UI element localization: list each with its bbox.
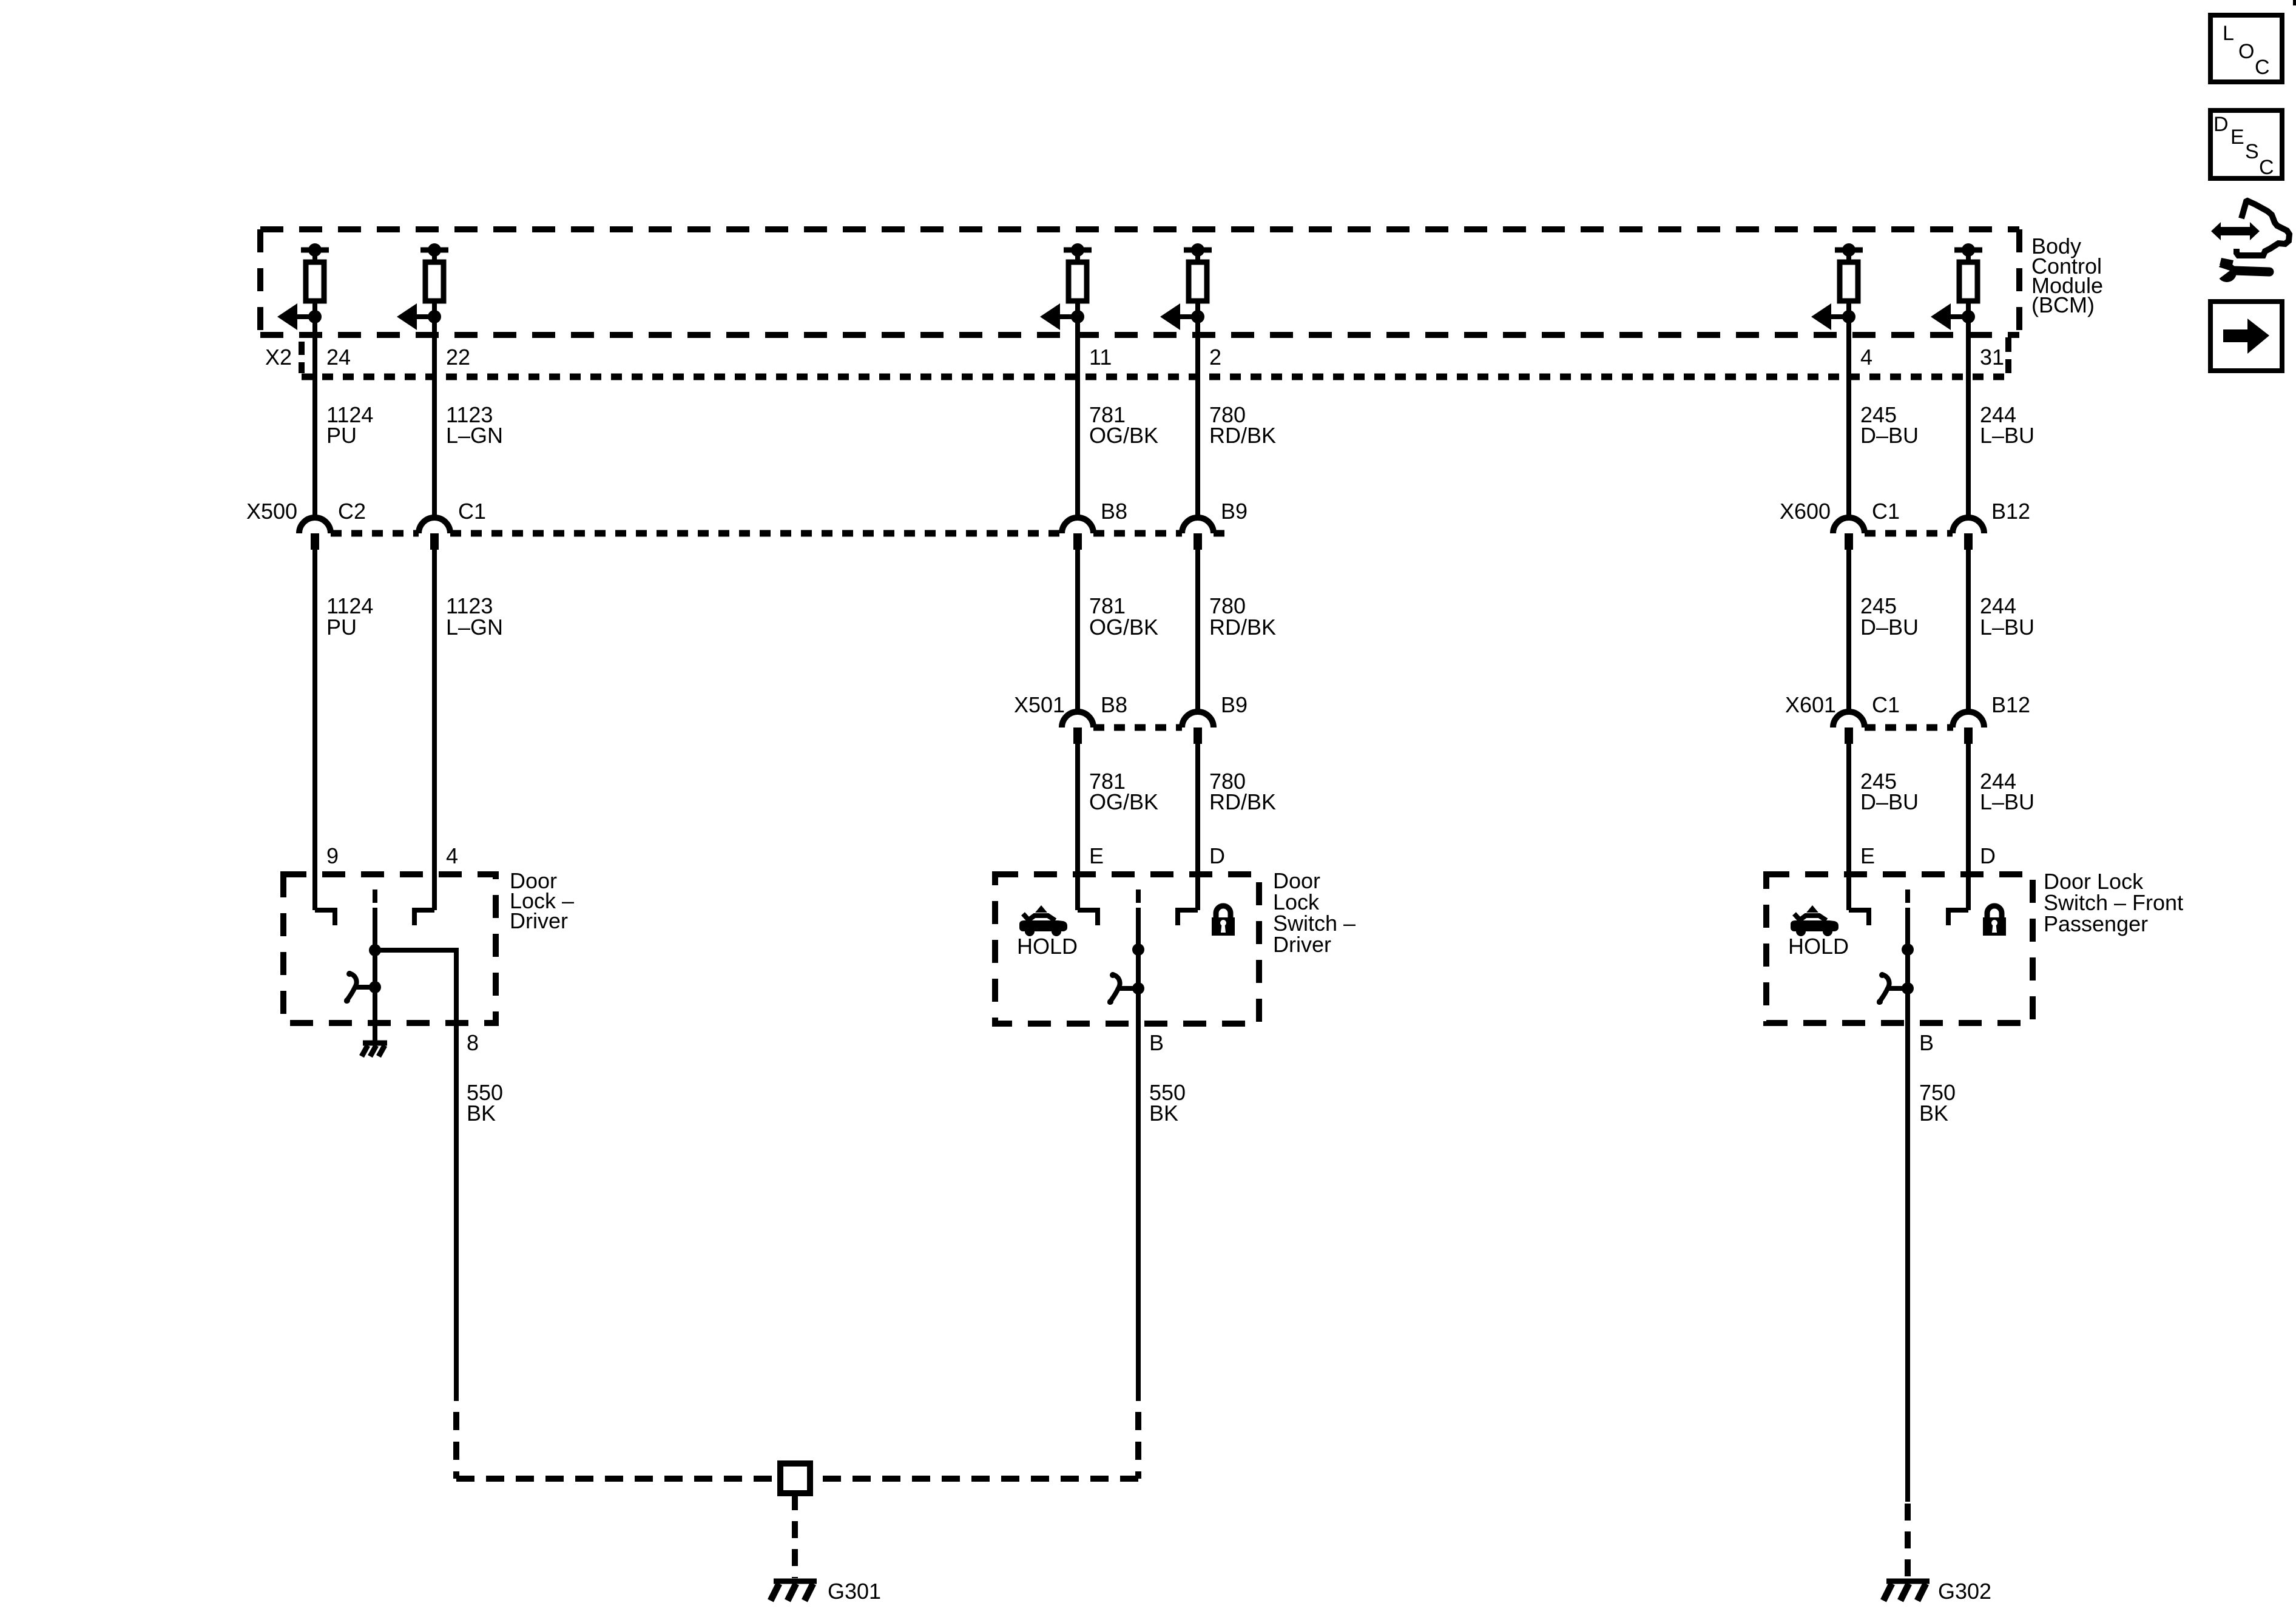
forward arrow legend box xyxy=(2210,302,2282,371)
connector pass-through terminal at x=1974 (row X500/X600) xyxy=(1182,518,1214,550)
BCM internal circuit: passenger switch lock input (pin 4) xyxy=(1811,243,1863,330)
svg-text:31: 31 xyxy=(1980,345,2004,370)
wire 245 D–BU: BCM pin 4 down to connector xyxy=(1846,301,1851,519)
Body Control Module (BCM) dashed box xyxy=(260,229,2019,335)
connector pass-through terminal at x=3244 (row X500/X600) xyxy=(1953,518,1984,550)
wire label 780 RD/BK (middle run) xyxy=(1209,593,1276,640)
fixed contact hook at x=3047 xyxy=(1849,910,1869,925)
svg-text:S: S xyxy=(2245,140,2259,163)
splice junction square xyxy=(780,1463,810,1493)
door lock driver switch mechanical link (dashed) xyxy=(373,890,377,903)
connector X2 left edge tick xyxy=(299,342,305,373)
svg-text:B: B xyxy=(1149,1030,1164,1055)
switch lever link xyxy=(354,985,370,990)
wire 780 RD/BK: middle run between connectors xyxy=(1195,550,1200,713)
dashed lead to ground G301 xyxy=(792,1493,798,1578)
wire 550 BK label (driver lock) xyxy=(467,1080,503,1126)
svg-text:D–BU: D–BU xyxy=(1860,615,1919,640)
wire branch to pin 8 xyxy=(375,950,456,1401)
switch mechanical link (dashed) x=3144 xyxy=(1905,890,1910,903)
connector pass-through terminal at x=3047 (row X501/X601) xyxy=(1833,712,1865,744)
fixed contact hook at x=1776 xyxy=(1078,910,1098,925)
wire label 781 OG/BK (middle run) xyxy=(1089,593,1158,640)
switch upper node xyxy=(1902,944,1914,956)
svg-text:Passenger: Passenger xyxy=(2044,911,2148,936)
wire 244 L–BU: middle run between connectors xyxy=(1966,550,1971,713)
svg-text:B9: B9 xyxy=(1221,499,1248,524)
svg-text:PU: PU xyxy=(326,423,357,448)
svg-text:BK: BK xyxy=(1149,1101,1178,1126)
wire 750 BK label xyxy=(1919,1080,1956,1126)
wire 244 L–BU: lower run to switch xyxy=(1966,744,1971,910)
Door Lock Switch - Driver name label xyxy=(1273,868,1356,957)
svg-text:E: E xyxy=(1860,843,1875,868)
wire 1123 L–GN: BCM pin 22 down to connector xyxy=(432,301,437,519)
internal chassis ground of door lock driver xyxy=(362,1043,387,1056)
svg-text:B8: B8 xyxy=(1101,499,1127,524)
wire label 781 OG/BK (upper run) xyxy=(1089,402,1158,448)
svg-text:D: D xyxy=(1980,843,1996,868)
DESC legend box xyxy=(2210,110,2282,179)
svg-text:C1: C1 xyxy=(1872,499,1900,524)
svg-text:2: 2 xyxy=(1209,345,1221,370)
wire label 780 RD/BK (lower run) xyxy=(1209,769,1276,814)
wire label 1124 PU (upper run) xyxy=(326,402,373,448)
svg-text:C1: C1 xyxy=(458,499,486,524)
Door Lock Switch - Driver dashed box xyxy=(995,874,1259,1024)
svg-text:8: 8 xyxy=(467,1030,479,1055)
wire 780 RD/BK: BCM pin 2 down to connector xyxy=(1195,301,1200,519)
switch contact node xyxy=(369,981,381,993)
svg-text:G302: G302 xyxy=(1938,1579,1991,1604)
BCM internal circuit: passenger switch unlock input (pin 31) xyxy=(1931,243,1982,330)
wire label 245 D–BU (lower run) xyxy=(1860,769,1919,814)
switch upper node xyxy=(1132,944,1144,956)
svg-text:B12: B12 xyxy=(1991,692,2030,717)
connector X2 dotted face line xyxy=(302,374,2008,380)
connector pass-through terminal at x=3244 (row X501/X601) xyxy=(1953,712,1984,744)
svg-text:D–BU: D–BU xyxy=(1860,789,1919,814)
dashed lead to ground G302 xyxy=(1905,1504,1911,1578)
svg-text:E: E xyxy=(2230,126,2244,149)
fixed contact hook at x=3244 xyxy=(1948,910,1968,925)
HOLD car icon xyxy=(1791,905,1838,936)
connector X500/X600 dotted face line segments xyxy=(331,530,419,537)
connector X2 right edge tick xyxy=(2005,337,2011,373)
svg-text:D: D xyxy=(2213,113,2229,136)
wire label 245 D–BU (upper run) xyxy=(1860,402,1919,448)
Door Lock - Driver dashed box xyxy=(283,874,496,1023)
wire 550 BK label (driver switch) xyxy=(1149,1080,1186,1126)
wire label 244 L–BU (upper run) xyxy=(1980,402,2034,448)
svg-text:PU: PU xyxy=(326,615,357,640)
wire 1124 PU: X500 down to Door Lock - Driver xyxy=(312,550,317,910)
connector pass-through terminal at x=519 (row X500/X600) xyxy=(299,518,331,550)
door lock driver switch common line xyxy=(373,908,377,1041)
wire 780 RD/BK: lower run to switch xyxy=(1195,744,1200,910)
svg-text:D: D xyxy=(1209,843,1225,868)
dashed ground wire from driver switch pin B xyxy=(1135,1412,1141,1479)
wire 781 OG/BK: BCM pin 11 down to connector xyxy=(1075,301,1080,519)
svg-text:C2: C2 xyxy=(338,499,366,524)
svg-text:X2: X2 xyxy=(265,345,292,370)
svg-text:L–BU: L–BU xyxy=(1980,423,2034,448)
LOC legend box xyxy=(2210,15,2282,82)
dashed ground bus to G301 (right) xyxy=(810,1476,1138,1482)
wire 1123 L–GN: X500 down to Door Lock - Driver xyxy=(432,550,437,910)
wire 245 D–BU: lower run to switch xyxy=(1846,744,1851,910)
wire 781 OG/BK: middle run between connectors xyxy=(1075,550,1080,713)
svg-text:HOLD: HOLD xyxy=(1788,934,1849,959)
wire 245 D–BU: middle run between connectors xyxy=(1846,550,1851,713)
wire label 245 D–BU (middle run) xyxy=(1860,593,1919,640)
padlock icon (lock position, passenger) xyxy=(1983,906,2006,936)
ground symbol G302 xyxy=(1883,1581,1930,1601)
page corner mark xyxy=(2293,0,2296,5)
svg-text:OG/BK: OG/BK xyxy=(1089,789,1158,814)
svg-text:RD/BK: RD/BK xyxy=(1209,615,1276,640)
wire label 780 RD/BK (upper run) xyxy=(1209,402,1276,448)
switch lever link xyxy=(1118,986,1133,991)
svg-text:4: 4 xyxy=(446,843,458,868)
svg-text:D–BU: D–BU xyxy=(1860,423,1919,448)
svg-text:G301: G301 xyxy=(828,1579,881,1604)
connector pass-through terminal at x=1974 (row X501/X601) xyxy=(1182,712,1214,744)
svg-text:B8: B8 xyxy=(1101,692,1127,717)
BCM name label xyxy=(2031,234,2103,317)
BCM internal circuit: driver switch unlock input (pin 2) xyxy=(1160,243,1212,330)
connector pass-through terminal at x=1776 (row X501/X601) xyxy=(1062,712,1093,744)
svg-text:E: E xyxy=(1089,843,1104,868)
switch contact node xyxy=(1902,982,1914,994)
svg-text:BK: BK xyxy=(1919,1101,1948,1126)
BCM internal circuit: lock driver output (pin 24) xyxy=(277,243,329,330)
svg-text:OG/BK: OG/BK xyxy=(1089,423,1158,448)
vehicle section icon with double arrow and wrench xyxy=(2211,201,2289,282)
svg-text:9: 9 xyxy=(326,843,339,868)
svg-text:B9: B9 xyxy=(1221,692,1248,717)
svg-text:X501: X501 xyxy=(1014,692,1065,717)
connector pass-through terminal at x=3047 (row X500/X600) xyxy=(1833,518,1865,550)
svg-text:4: 4 xyxy=(1860,345,1872,370)
switch lever curve xyxy=(346,973,357,1001)
connector X501/X601 dotted face line segments xyxy=(1093,724,1182,731)
svg-text:Driver: Driver xyxy=(1273,932,1331,957)
wire label 1124 PU (lower run) xyxy=(326,593,373,640)
svg-text:L–BU: L–BU xyxy=(1980,615,2034,640)
svg-text:C: C xyxy=(2259,156,2274,179)
HOLD car icon xyxy=(1019,905,1067,936)
padlock icon (lock position) xyxy=(1212,906,1235,936)
svg-text:O: O xyxy=(2238,40,2254,63)
wire 244 L–BU: BCM pin 31 down to connector xyxy=(1966,301,1971,519)
wire label 244 L–BU (lower run) xyxy=(1980,769,2034,814)
svg-text:L–GN: L–GN xyxy=(446,615,503,640)
Door Lock - Driver name label xyxy=(510,868,574,933)
wire label 1123 L–GN (lower run) xyxy=(446,593,503,640)
svg-text:22: 22 xyxy=(446,345,470,370)
svg-text:RD/BK: RD/BK xyxy=(1209,789,1276,814)
dashed ground bus to G301 (left) xyxy=(456,1476,780,1482)
svg-text:C1: C1 xyxy=(1872,692,1900,717)
switch lever curve xyxy=(1110,974,1120,1002)
svg-text:C: C xyxy=(2255,56,2270,79)
svg-text:L–GN: L–GN xyxy=(446,423,503,448)
svg-text:X601: X601 xyxy=(1785,692,1836,717)
switch mechanical link (dashed) x=1876 xyxy=(1136,890,1141,903)
BCM internal circuit: unlock driver output (pin 22) xyxy=(397,243,448,330)
wire 1124 PU: BCM pin 24 down to connector xyxy=(312,301,317,519)
switch lever curve xyxy=(1879,974,1889,1002)
Door Lock Switch - Front Passenger dashed box xyxy=(1766,874,2033,1023)
dashed ground wire from pin 8 xyxy=(453,1412,459,1479)
svg-text:11: 11 xyxy=(1089,345,1112,370)
wire label 781 OG/BK (lower run) xyxy=(1089,769,1158,814)
svg-text:Driver: Driver xyxy=(510,908,568,933)
wire label 244 L–BU (middle run) xyxy=(1980,593,2034,640)
connector pass-through terminal at x=1776 (row X500/X600) xyxy=(1062,518,1093,550)
svg-text:X500: X500 xyxy=(246,499,297,524)
svg-text:BK: BK xyxy=(467,1101,496,1126)
connector pass-through terminal at x=716 (row X500/X600) xyxy=(419,518,450,550)
svg-text:(BCM): (BCM) xyxy=(2031,292,2095,317)
svg-text:OG/BK: OG/BK xyxy=(1089,615,1158,640)
switch contact node xyxy=(1132,982,1144,994)
BCM internal circuit: driver switch lock input (pin 11) xyxy=(1040,243,1092,330)
fixed contact hook at x=1974 xyxy=(1178,910,1198,925)
svg-text:HOLD: HOLD xyxy=(1017,934,1078,959)
svg-text:B12: B12 xyxy=(1991,499,2030,524)
wire 781 OG/BK: lower run to switch xyxy=(1075,744,1080,910)
fixed contact hook at x=519 xyxy=(315,910,335,925)
svg-text:B: B xyxy=(1919,1030,1934,1055)
wire label 1123 L–GN (upper run) xyxy=(446,402,503,448)
Door Lock Switch - Front Passenger name label xyxy=(2044,869,2183,936)
junction node to pin 8 xyxy=(369,944,381,956)
svg-text:L–BU: L–BU xyxy=(1980,789,2034,814)
switch common line to pin B xyxy=(1136,908,1141,1401)
fixed contact hook at x=716 xyxy=(414,910,434,925)
switch lever link xyxy=(1887,986,1903,991)
svg-text:X600: X600 xyxy=(1780,499,1831,524)
svg-text:RD/BK: RD/BK xyxy=(1209,423,1276,448)
switch common line to pin B xyxy=(1905,908,1910,1502)
ground symbol G301 xyxy=(771,1581,817,1601)
svg-text:24: 24 xyxy=(326,345,351,370)
svg-text:L: L xyxy=(2223,22,2234,45)
